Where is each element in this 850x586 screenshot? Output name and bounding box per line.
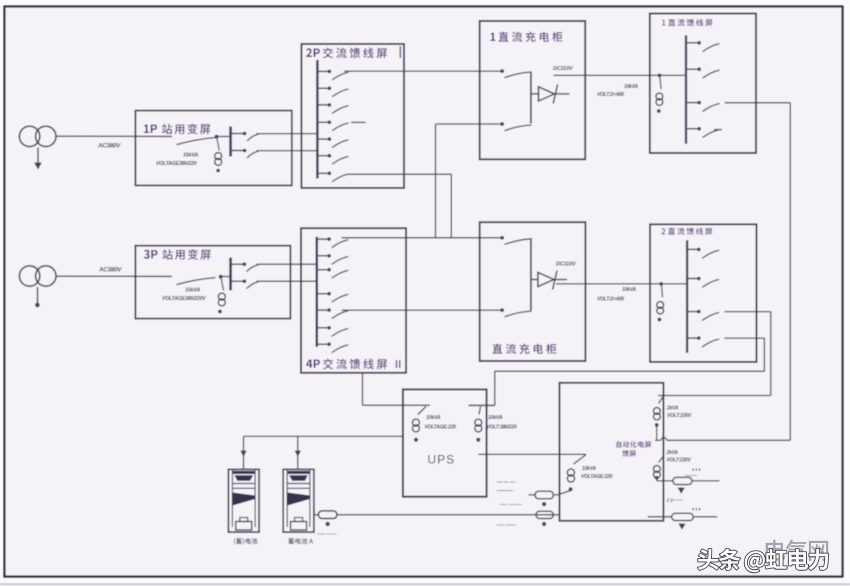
fuse-switch F4 (right top of automation) bbox=[659, 397, 664, 404]
svg-text:10kVA: 10kVA bbox=[624, 84, 639, 90]
svg-text:15kVA: 15kVA bbox=[185, 288, 200, 294]
1DC feeder switch 4 bbox=[686, 128, 698, 130]
busbar 1P bbox=[229, 127, 232, 157]
svg-text:~~~~~: ~~~~~ bbox=[685, 473, 697, 478]
svg-text:VOLTAGE380/220V: VOLTAGE380/220V bbox=[162, 296, 206, 302]
bottom page edge strip bbox=[0, 583, 850, 585]
battery cabinet 2 bbox=[283, 469, 314, 532]
3P feeder 2 stub bbox=[231, 280, 243, 282]
label 3P panel bbox=[144, 250, 158, 259]
svg-text:VOLT.D=400: VOLT.D=400 bbox=[597, 297, 624, 303]
2P feeder switch 2 bbox=[317, 87, 328, 89]
svg-text:10kVA: 10kVA bbox=[426, 415, 441, 421]
3P feeder 1 stub bbox=[231, 263, 243, 265]
svg-text:~~ ~~ ~~: ~~ ~~ ~~ bbox=[497, 480, 516, 486]
label automation panel r2 bbox=[622, 450, 636, 457]
stub below T2 bbox=[37, 287, 39, 303]
switch QS1 arm bbox=[177, 138, 215, 145]
1DC feeder switch 3 bbox=[686, 102, 698, 104]
mark below shunt bbox=[326, 522, 330, 526]
wire: 3P feeder2 to 4P bus bbox=[257, 280, 317, 282]
UPS fuse-switch F1 bbox=[418, 407, 426, 415]
panel 3P station transformer bbox=[135, 246, 290, 319]
svg-text:10kVA: 10kVA bbox=[488, 415, 503, 421]
wire: hline y440 to right riser bbox=[655, 439, 661, 441]
charger U2 input2 switch bbox=[500, 308, 504, 312]
svg-text:DC110V: DC110V bbox=[553, 66, 574, 72]
svg-text:DC110V: DC110V bbox=[556, 262, 577, 268]
1P feeder 1 switch arm bbox=[248, 134, 259, 140]
wire through pill L1 bbox=[529, 494, 536, 496]
svg-text:VOLT:220V: VOLT:220V bbox=[667, 413, 692, 419]
wire: T2 to 3P panel bbox=[56, 275, 172, 277]
wire after pill R1 bbox=[692, 480, 720, 482]
wire: 4P sw1 to charger U2 input1 bbox=[341, 237, 502, 239]
transformer T1 bbox=[19, 126, 39, 146]
wire: 1DC sw4 stub bbox=[714, 129, 722, 131]
busbar 4P bbox=[316, 237, 319, 347]
svg-text:VOLT:380/220: VOLT:380/220 bbox=[487, 425, 517, 431]
2DC feeder switch 3 bbox=[687, 311, 697, 313]
diode D2 bbox=[531, 279, 538, 281]
4P feeder switch 7 bbox=[317, 343, 328, 345]
2DC feeder switch 4 bbox=[687, 337, 697, 339]
4P feeder switch 1 bbox=[317, 238, 328, 240]
wire: 2P sw4 short stub bbox=[351, 121, 366, 123]
wire: drop to UPS fuse2 bbox=[494, 371, 496, 405]
2P feeder switch 7 bbox=[317, 172, 328, 174]
watermark dianqiwang bbox=[766, 540, 829, 561]
fuse link pill R2 bbox=[672, 513, 694, 520]
4P feeder switch 6 bbox=[317, 327, 328, 329]
node: 2DC input junction bbox=[659, 282, 663, 286]
label automation panel r1 bbox=[616, 441, 651, 448]
charger U1 collector bar bbox=[530, 72, 532, 124]
charger cabinet U2 (DC charger) bbox=[480, 222, 586, 361]
svg-text:AC380V: AC380V bbox=[97, 143, 121, 150]
1P feeder 1 stub bbox=[231, 133, 243, 135]
label battery 1 bbox=[234, 538, 257, 545]
svg-text:VOLTAGE380/220: VOLTAGE380/220 bbox=[156, 161, 197, 167]
busbar 3P bbox=[229, 258, 232, 291]
wire: 2DC sw4 output bbox=[724, 337, 764, 339]
wire: right riser x790 bbox=[789, 103, 791, 441]
1P feeder 2 switch arm bbox=[248, 151, 259, 157]
wire: 2DC sw3 output bbox=[724, 311, 770, 313]
PT fuse branch in 3P bbox=[221, 278, 224, 291]
label 1DC panel bbox=[662, 20, 665, 26]
svg-text:2kVA: 2kVA bbox=[666, 450, 679, 456]
label 1P panel bbox=[144, 125, 157, 134]
wire: 1P feeder2 to 2P bus bbox=[257, 150, 318, 152]
4P feeder switch 4 bbox=[317, 293, 328, 295]
4P feeder switch 2 bbox=[317, 255, 328, 257]
wire: 1DC sw3 output bbox=[725, 102, 790, 104]
svg-text:VOLTAGE:220: VOLTAGE:220 bbox=[581, 474, 613, 480]
switch QS2 arm bbox=[177, 278, 215, 285]
2DC feeder switch 1 bbox=[687, 248, 697, 250]
automation power panel bbox=[560, 383, 664, 521]
node: 1P junction bbox=[215, 135, 219, 139]
svg-text:VOLTAGE:220: VOLTAGE:220 bbox=[425, 425, 457, 431]
2P feeder switch 4 bbox=[317, 121, 328, 123]
node below pill L2 bbox=[542, 522, 546, 526]
wire: 2P sw7 to tie line bbox=[347, 173, 451, 175]
wire: 2P sw1 to charger U1 input1 bbox=[344, 70, 502, 72]
charger cabinet U1 (1 DC charger) bbox=[480, 21, 586, 159]
wire: F5 to pill R1 bbox=[656, 480, 658, 481]
wire: 1P feeder1 to 2P bus bbox=[257, 133, 318, 135]
3P feeder 1 switch arm bbox=[247, 265, 258, 271]
wire: U2 output to 2DC panel bus bbox=[556, 283, 687, 285]
wire: drop to battery 1 bbox=[243, 436, 245, 469]
1P feeder 2 stub bbox=[231, 150, 243, 152]
load arrow below pill R1 bbox=[678, 488, 685, 494]
shunt pill at battery 2 bbox=[314, 514, 319, 516]
svg-text:2kVA: 2kVA bbox=[666, 406, 679, 412]
panel 1P station transformer bbox=[135, 111, 291, 186]
label 2DC panel bbox=[662, 228, 666, 234]
wire: junction to 1P bus bbox=[217, 136, 231, 138]
wire: 4P bottom drop to UPS bbox=[362, 373, 364, 405]
svg-text:VOLT:220V: VOLT:220V bbox=[667, 458, 692, 464]
4P feeder switch 3 bbox=[317, 269, 328, 271]
diode D1 bbox=[531, 93, 539, 95]
4P feeder switch 5 bbox=[317, 309, 328, 311]
svg-text:♦ ♦ ♦: ♦ ♦ ♦ bbox=[692, 507, 701, 512]
svg-text:~~~ ~~~~: ~~~ ~~~~ bbox=[317, 533, 337, 538]
charger U2 input1 switch bbox=[500, 236, 504, 240]
fuse-switch F5 (right mid of automation) bbox=[659, 457, 664, 463]
UPS fuse-switch F2 bbox=[469, 404, 495, 406]
UPS cabinet bbox=[403, 389, 487, 496]
panel 2P AC feeder bbox=[301, 44, 404, 188]
wire: tie vertical x435 (charger1 input2 leg) bbox=[435, 124, 437, 238]
wire: 4P sw5 to charger U2 input2 bbox=[341, 309, 502, 311]
label 4P panel bbox=[306, 360, 320, 369]
2DC feeder switch 2 bbox=[687, 278, 697, 280]
transformer T2 bbox=[19, 266, 39, 286]
node: 1DC input junction bbox=[658, 74, 662, 78]
load arrow below pill R2 bbox=[678, 524, 685, 530]
2P feeder switch 6 bbox=[317, 155, 328, 157]
2P feeder switch 3 bbox=[317, 104, 328, 106]
fuse link pill L1 bbox=[535, 491, 553, 499]
panel 4P AC feeder bbox=[301, 228, 406, 373]
node: 3P junction bbox=[219, 275, 223, 279]
svg-text:UPS: UPS bbox=[428, 453, 456, 467]
charger U1 input1 switch bbox=[500, 69, 504, 73]
wire: drop to battery 2 bbox=[297, 436, 299, 469]
wire: tie vertical x451 bbox=[450, 174, 452, 237]
fuse-switch F3 on UPS feed bbox=[574, 455, 587, 464]
wire: battery bus to automation panel bbox=[337, 514, 560, 516]
label charger U1 bbox=[490, 33, 495, 41]
1DC feeder switch 1 bbox=[686, 42, 698, 44]
busbar 2DC bbox=[686, 240, 688, 353]
fuse link pill L2 bbox=[536, 511, 553, 518]
charger U1 input2 switch bbox=[500, 122, 504, 126]
wire: charger U1 input2 horizontal bbox=[436, 123, 503, 125]
svg-text:15kVA: 15kVA bbox=[183, 153, 198, 159]
charger U2 collector bar bbox=[530, 238, 532, 310]
wire: U1 output to 1DC panel bus bbox=[553, 74, 686, 76]
svg-text:~~~ ~~~~: ~~~ ~~~~ bbox=[497, 524, 517, 529]
svg-text:~~~ ~~~~~: ~~~ ~~~~~ bbox=[500, 503, 522, 508]
1DC feeder switch 2 bbox=[686, 68, 698, 70]
battery cabinet 1 bbox=[228, 469, 259, 532]
watermark toutiao bbox=[698, 549, 828, 573]
wire through pill R2 bbox=[648, 516, 672, 518]
fuse link pill R1 bbox=[673, 477, 692, 484]
svg-text:VOLT.D=400: VOLT.D=400 bbox=[597, 92, 624, 98]
svg-text:~~~~~~: ~~~~~~ bbox=[497, 489, 514, 495]
wire: UPS to battery bus bbox=[244, 435, 403, 437]
label charger U2 bbox=[492, 344, 556, 354]
wire: 3P feeder1 to 4P bus bbox=[257, 263, 317, 265]
3P feeder 2 switch arm bbox=[247, 282, 258, 288]
PT fuse branch in 1P bbox=[217, 138, 220, 151]
svg-text:10kVA: 10kVA bbox=[582, 466, 597, 472]
svg-text:10kVA: 10kVA bbox=[622, 287, 637, 293]
wire: UPS output to automation panel bbox=[478, 453, 586, 455]
label 2P panel bbox=[306, 48, 320, 57]
2P feeder switch 1 bbox=[317, 70, 328, 72]
svg-text:♦ ♦ ♦: ♦ ♦ ♦ bbox=[692, 467, 701, 472]
wire: T1 to 1P panel bbox=[56, 135, 172, 137]
fuse FU2 below junction bbox=[661, 285, 662, 298]
2P feeder switch 5 bbox=[317, 138, 328, 140]
busbar 1DC bbox=[685, 35, 687, 143]
wire: junction to 3P bus bbox=[221, 276, 231, 278]
panel 1 DC feeder bbox=[650, 14, 756, 154]
label battery 2 bbox=[288, 538, 313, 544]
ground arrow below T1 bbox=[37, 148, 39, 164]
panel 2 DC feeder bbox=[650, 224, 756, 362]
svg-text:(~)~~~~: (~)~~~~ bbox=[667, 498, 683, 504]
busbar 2P bbox=[316, 60, 319, 179]
svg-text:AC380V: AC380V bbox=[98, 267, 122, 274]
wire: F3 to pill L1 bbox=[553, 491, 570, 495]
fuse FU1 below junction bbox=[660, 76, 662, 89]
node below pill L1 bbox=[542, 502, 546, 506]
